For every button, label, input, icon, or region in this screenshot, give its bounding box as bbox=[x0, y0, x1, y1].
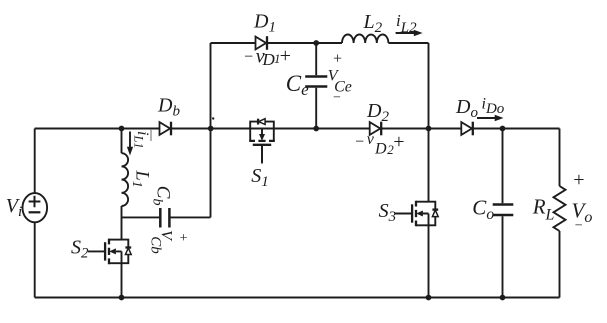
svg-text:VCb: VCb bbox=[148, 230, 175, 254]
svg-text:D1: D1 bbox=[253, 11, 276, 36]
svg-text:L2: L2 bbox=[363, 11, 383, 36]
svg-text:+: + bbox=[332, 50, 343, 67]
svg-text:L1: L1 bbox=[129, 170, 152, 188]
svg-text:S2: S2 bbox=[71, 237, 89, 262]
svg-text:Vi: Vi bbox=[6, 195, 22, 220]
svg-text:−: − bbox=[332, 91, 341, 106]
svg-text:S3: S3 bbox=[379, 200, 397, 225]
svg-text:+: + bbox=[278, 45, 292, 67]
svg-text:+: + bbox=[179, 231, 188, 246]
svg-text:iDo: iDo bbox=[482, 95, 505, 117]
svg-text:S1: S1 bbox=[251, 165, 269, 190]
svg-text:Cb: Cb bbox=[150, 186, 174, 206]
svg-text:−: − bbox=[574, 219, 583, 234]
svg-text:Db: Db bbox=[157, 95, 180, 120]
svg-text:+: + bbox=[392, 131, 406, 153]
svg-text:−: − bbox=[243, 48, 254, 65]
svg-text:D2: D2 bbox=[366, 100, 389, 125]
svg-text:v: v bbox=[367, 131, 375, 148]
svg-text:D: D bbox=[374, 141, 387, 158]
svg-text:Co: Co bbox=[472, 196, 494, 223]
svg-text:+: + bbox=[572, 169, 586, 191]
svg-text:RL: RL bbox=[532, 195, 555, 224]
svg-text:Do: Do bbox=[455, 96, 478, 121]
svg-text:iL1: iL1 bbox=[132, 131, 152, 149]
svg-text:−: − bbox=[354, 134, 365, 151]
